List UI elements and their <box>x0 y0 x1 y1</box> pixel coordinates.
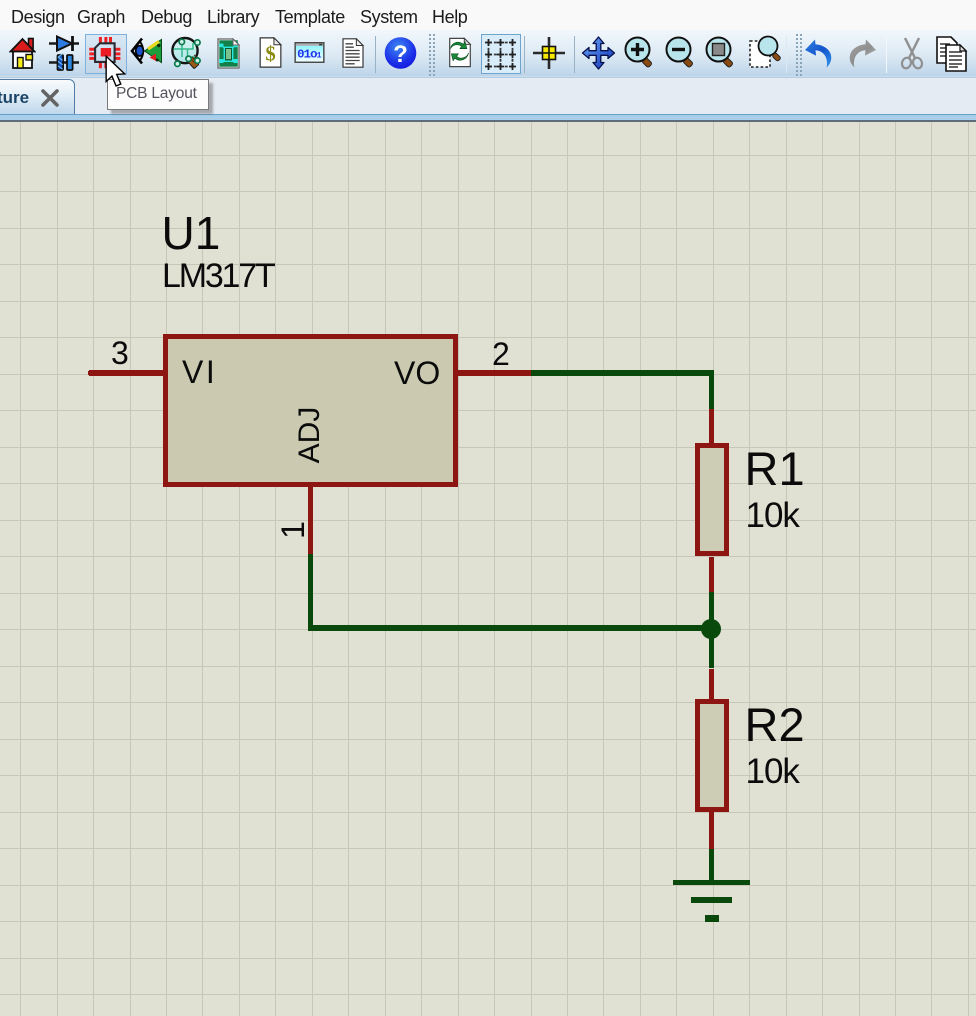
tab close X <box>41 89 59 107</box>
toolbar separators <box>375 36 376 73</box>
icon: zoom area <box>705 36 735 70</box>
icon: goto sheet (magnifier circuit) <box>171 35 205 71</box>
icon: zoom to sheet <box>748 35 781 71</box>
pin name ADJ (rotated) <box>295 385 325 485</box>
tab-bar bottom border bands <box>0 114 976 116</box>
svg-text:$: $ <box>265 43 275 65</box>
pin number 2 <box>492 336 510 373</box>
resistor R1 <box>695 443 730 556</box>
icon: help (blue ?) <box>384 37 417 70</box>
menu bar <box>0 0 976 30</box>
mouse cursor <box>104 55 132 92</box>
icon: design explorer (eye) <box>130 36 164 70</box>
icon: copy <box>936 36 968 72</box>
R2 value 10k <box>746 752 799 792</box>
icon: digital analysis (0101) <box>294 42 325 63</box>
icon: redo (gray) <box>845 37 877 69</box>
toolbar grippers (dotted) <box>429 34 431 76</box>
icon: zoom out <box>665 36 695 70</box>
icon: BOM (dollar doc) <box>259 37 282 68</box>
U1 value label LM317T <box>162 257 274 296</box>
ground symbol <box>673 880 750 886</box>
regulator U1 body <box>163 334 459 487</box>
tooltip PCB Layout <box>107 79 209 110</box>
ADJ wire down (green) <box>308 554 314 630</box>
R1 value 10k <box>746 496 799 536</box>
ADJ pin stub (maroon, vertical) <box>308 487 314 555</box>
wire R1 to R2 through junction (green) <box>709 592 715 668</box>
icon: zoom in <box>624 36 654 70</box>
wire VO corner down (green, vertical) <box>709 370 715 409</box>
wire R2 to ground (green) <box>709 849 715 883</box>
icon: home <box>9 36 36 70</box>
tab bar <box>0 78 976 115</box>
toolbar <box>0 30 976 78</box>
icon: grid toggle (pressed button) <box>481 34 521 74</box>
icon: refresh (green arrows doc) <box>448 37 472 68</box>
R1 bottom pin (maroon) <box>709 557 715 593</box>
icon: PCB layout (highlighted button) <box>85 34 127 74</box>
R2 reference label <box>745 697 805 752</box>
icon: origin crosshair <box>532 36 566 70</box>
ADJ feedback wire horizontal (green) <box>308 625 715 631</box>
pin name VI <box>182 354 217 391</box>
resistor R2 <box>695 699 730 813</box>
pin 3 wire (maroon, input left) <box>89 370 163 376</box>
pin number 1 (rotated) <box>278 500 308 560</box>
junction node dot <box>701 619 721 639</box>
icon: netlist to PCB (green doc) <box>217 38 240 69</box>
tab label <box>0 88 29 108</box>
R1 top pin (maroon) <box>709 409 715 443</box>
wire VO to R1 (green, horizontal) <box>531 370 714 376</box>
active tab "Schematic Capture" (clipped) <box>0 79 75 114</box>
icon: pan (blue 4-way arrow) <box>581 36 616 70</box>
U1 reference label <box>162 206 221 260</box>
pin name VO <box>394 355 440 392</box>
icon: text doc (design notes) <box>342 38 364 68</box>
icon: component mode (diode) <box>48 35 80 71</box>
icon: undo <box>804 37 836 69</box>
R2 top pin (maroon) <box>709 669 715 699</box>
icon: cut (scissors) <box>897 36 927 70</box>
R2 bottom pin (maroon) <box>709 812 715 849</box>
pin 2 wire (maroon) <box>458 370 531 376</box>
pin 3 origin tick <box>88 371 92 374</box>
R1 reference label <box>745 441 805 496</box>
svg-text:?: ? <box>393 41 408 68</box>
pin number 3 <box>111 335 129 372</box>
